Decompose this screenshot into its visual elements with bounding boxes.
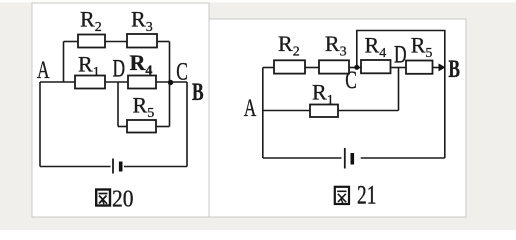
resistor R1 fig20 box — [75, 76, 105, 89]
wire: fig20 main row R4 through node C to right corner — [156, 81, 187, 83]
resistor R2 fig21 box — [274, 60, 305, 73]
wire: fig20 main row A to R1 — [40, 81, 75, 83]
wire: fig21 node D vertical down to R1 row — [398, 68, 400, 111]
wire: fig21 top row left segment to R2 — [263, 67, 274, 69]
resistor R4 fig20 box — [128, 76, 156, 89]
figure caption glyph 图 fig21 — [335, 187, 349, 204]
arrowhead pointing to node B fig21 — [439, 63, 446, 71]
svg-text:A: A — [244, 94, 257, 122]
wire: fig21 R5 to arrow at B — [433, 67, 441, 69]
wire: fig20 main row R1 to R4 through node D — [105, 81, 128, 83]
wire: fig20 bottom left to battery — [40, 166, 111, 168]
battery fig20 long plate — [112, 159, 114, 174]
battery fig20 short thick plate — [119, 162, 123, 172]
wire: fig21 parallel loop from node C up over to node B and down to bottom — [357, 31, 445, 159]
wire: fig21 R1 row from R1 to node D riser — [338, 110, 399, 112]
resistor R2 fig20 box — [78, 35, 105, 48]
svg-text:C: C — [176, 57, 188, 85]
node C junction dot fig21 — [354, 65, 359, 70]
resistor R4 fig21 box — [361, 60, 391, 73]
resistor R3 fig21 box — [319, 60, 349, 73]
svg-text:20: 20 — [112, 185, 133, 211]
wire: fig20 vertical from node A row up to top branch — [63, 42, 65, 83]
wire: fig20 R5 branch left segment — [118, 126, 127, 128]
wire: fig21 top row R2 to R3 — [305, 67, 319, 69]
resistor R5 fig20 box — [127, 120, 156, 133]
svg-text:B: B — [192, 78, 204, 106]
wire: fig21 top row R4 through node D to R5 — [391, 67, 407, 69]
battery fig21 short thick plate — [350, 153, 354, 165]
svg-text:21: 21 — [357, 181, 376, 209]
battery fig21 long plate — [344, 148, 346, 169]
svg-text:B: B — [448, 55, 460, 83]
wire: fig20 bottom battery to right — [124, 166, 187, 168]
svg-text:D: D — [113, 54, 126, 82]
wire: fig20 top branch left segment — [64, 41, 79, 43]
svg-text:D: D — [394, 40, 407, 68]
wire: fig20 R5 branch right segment — [156, 126, 170, 128]
wire: fig20 node D vertical down to R5 branch — [117, 82, 119, 127]
wire: fig20 right vertical B down to battery row — [186, 82, 188, 167]
node C junction dot fig20 — [168, 80, 173, 85]
svg-text:A: A — [37, 56, 50, 84]
resistor R5 fig21 box — [406, 61, 433, 74]
wire: fig20 vertical from top branch down through node C to R5 branch — [169, 42, 171, 127]
resistor R3 fig20 box — [127, 34, 157, 48]
wire: fig21 left vertical from top row through A down to bottom — [262, 68, 264, 159]
wire: fig20 left vertical A down to battery row — [39, 82, 41, 167]
figure caption glyph 图 fig20 — [96, 190, 110, 206]
resistor R1 fig21 box — [310, 105, 338, 118]
right cell — [209, 19, 466, 217]
left cell — [32, 3, 209, 217]
wire: fig21 bottom left to battery — [263, 157, 342, 159]
wire: fig21 bottom battery to right — [361, 157, 445, 159]
wire: fig21 top row R3 through node C to R4 — [349, 67, 361, 69]
wire: fig20 top branch right segment — [157, 41, 170, 43]
svg-text:C: C — [345, 66, 357, 94]
wire: fig21 R1 row from A to R1 — [263, 110, 310, 112]
wire: fig20 top branch between R2 and R3 — [105, 41, 127, 43]
